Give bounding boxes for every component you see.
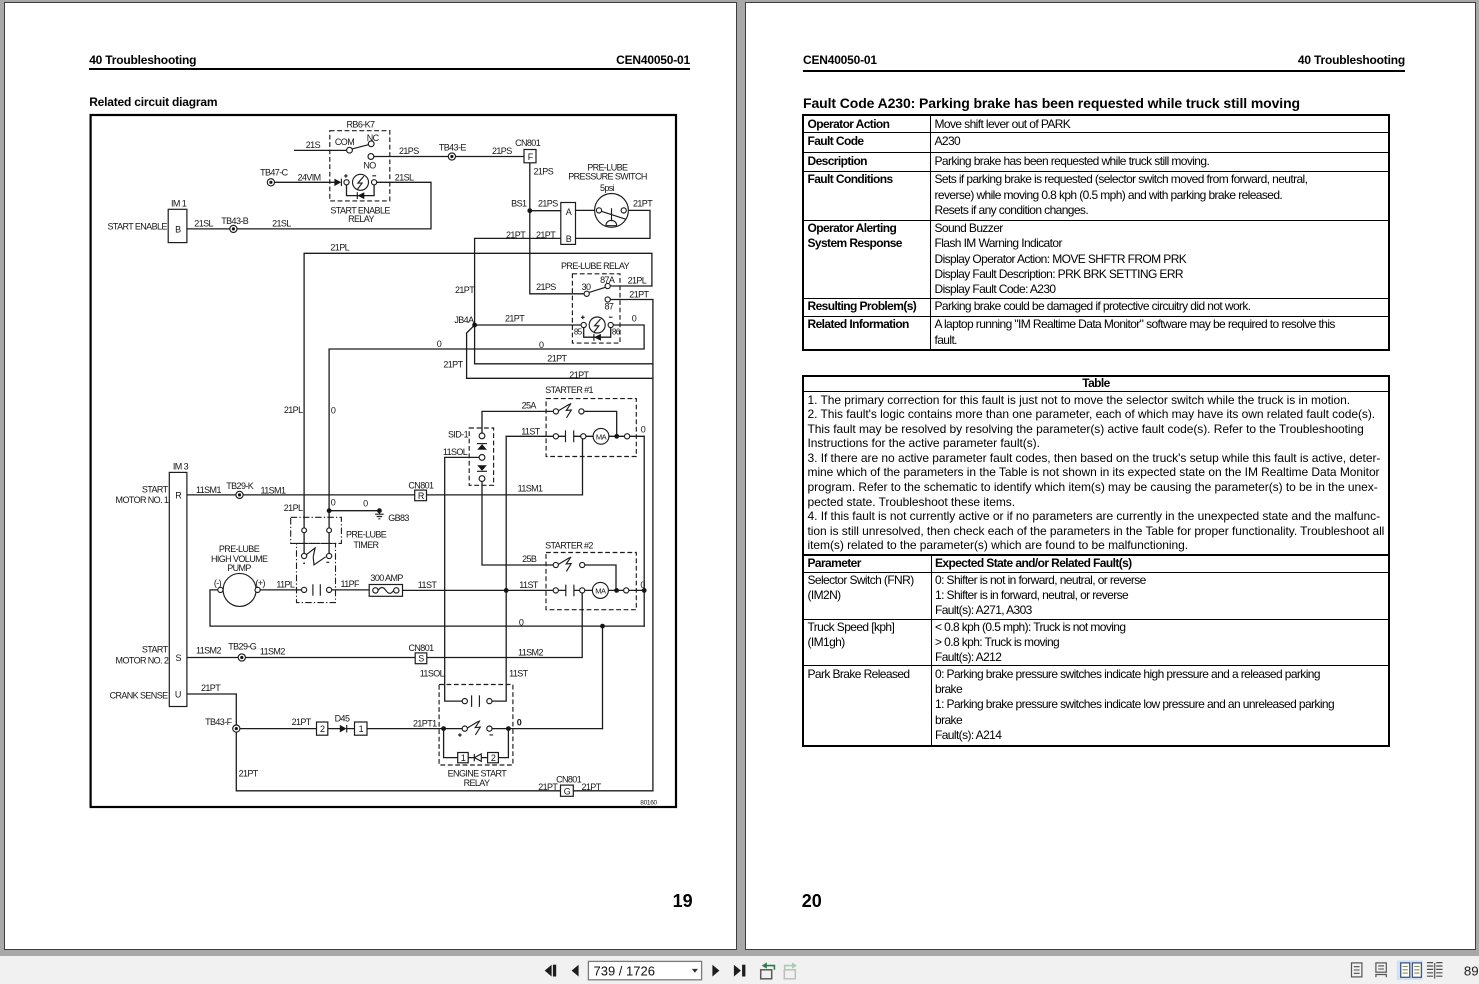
svg-text:21PT: 21PT <box>201 683 221 693</box>
wire 21PT from B to JB4A vertical <box>475 238 561 363</box>
svg-text:BS1: BS1 <box>511 199 527 209</box>
svg-text:21PS: 21PS <box>538 199 558 209</box>
connector A-B box <box>561 203 576 245</box>
wire 11ST fuse to starter 2 <box>403 589 554 591</box>
node 21PT1 junction dot <box>441 726 446 731</box>
svg-text:21PT: 21PT <box>239 769 259 779</box>
svg-text:21PT: 21PT <box>292 717 312 727</box>
wire 11SM2 IM3-S to CN801-S <box>187 657 415 659</box>
svg-text:NC: NC <box>367 133 380 143</box>
svg-text:739 / 1726: 739 / 1726 <box>594 963 655 978</box>
svg-text:21PL: 21PL <box>330 242 349 252</box>
wire 21S <box>295 149 347 151</box>
timer output contact <box>302 584 332 596</box>
svg-text:0: 0 <box>632 313 637 323</box>
svg-text:21PT: 21PT <box>506 230 526 240</box>
coil pre-lube relay <box>581 316 613 334</box>
relay blade COM-NC <box>352 145 368 149</box>
svg-text:STARTER #1: STARTER #1 <box>545 385 593 395</box>
svg-text:21PT1: 21PT1 <box>413 718 437 728</box>
svg-text:89: 89 <box>1464 963 1479 978</box>
svg-text:21PS: 21PS <box>492 146 512 156</box>
wire 11PF timer to fuse <box>332 589 370 591</box>
fuse 300 AMP <box>369 585 402 597</box>
wire engine start relay flyback loop <box>444 729 509 758</box>
svg-text:TB43-B: TB43-B <box>221 216 249 226</box>
diagram border frame <box>91 115 676 807</box>
wire 0 pump rail <box>210 590 644 626</box>
wire 25A SID-1 to starter 1 <box>482 411 553 433</box>
svg-text:0: 0 <box>331 498 336 508</box>
terminal box 2 <box>317 722 328 735</box>
svg-text:CN801: CN801 <box>408 480 434 490</box>
terminal timer left <box>302 528 307 533</box>
relay engine start dashed box <box>439 685 513 766</box>
toolbar first-page button <box>545 965 557 977</box>
svg-text:0: 0 <box>539 340 544 350</box>
motor MA starter 2 <box>592 582 608 598</box>
svg-text:11ST: 11ST <box>509 668 529 678</box>
svg-text:B: B <box>566 234 572 244</box>
svg-text:21PT: 21PT <box>582 782 602 792</box>
svg-text:21PT: 21PT <box>569 370 589 380</box>
svg-text:21S: 21S <box>306 140 321 150</box>
svg-text:11PF: 11PF <box>341 579 361 589</box>
svg-text:11ST: 11ST <box>519 580 539 590</box>
wire 21PL top rail <box>304 253 652 528</box>
svg-text:0: 0 <box>640 580 645 590</box>
connector TB29-G <box>238 654 245 661</box>
svg-text:11ST: 11ST <box>521 426 541 436</box>
coil engine start relay <box>458 720 493 736</box>
wire 21PT TB43-F to engine start relay <box>240 728 462 730</box>
svg-text:11SM2: 11SM2 <box>196 645 221 655</box>
toolbar next-view button disabled <box>784 962 797 978</box>
svg-text:TIMER: TIMER <box>353 540 379 550</box>
wire 11ST vertical <box>492 436 506 701</box>
svg-text:0: 0 <box>363 499 368 509</box>
module IM 1 box <box>168 209 187 242</box>
node JB4A junction dot <box>472 323 477 328</box>
svg-text:(-): (-) <box>214 578 222 588</box>
svg-text:START: START <box>142 484 169 494</box>
terminal starter 1 output <box>625 434 630 439</box>
starter 2 solenoid contact <box>553 585 585 597</box>
connector CN801-G box <box>561 785 574 796</box>
svg-text:0: 0 <box>519 618 524 628</box>
wire 21PT IM3-U drop <box>187 694 236 725</box>
svg-text:11SOL: 11SOL <box>443 447 468 457</box>
wire 11PL pump to timer <box>260 589 302 591</box>
toolbar continuous-view button <box>1376 963 1386 977</box>
svg-text:START: START <box>142 645 169 655</box>
timer upper box <box>291 517 342 543</box>
svg-text:START ENABLE: START ENABLE <box>107 221 167 231</box>
svg-text:21PS: 21PS <box>534 166 554 176</box>
svg-text:PRESSURE SWITCH: PRESSURE SWITCH <box>568 172 647 182</box>
svg-text:CN801: CN801 <box>556 775 582 785</box>
svg-text:D45: D45 <box>335 713 350 723</box>
wire 11SM1 IM3-R to CN801-R <box>187 494 415 496</box>
terminal box 1 <box>355 722 368 735</box>
svg-text:21PL: 21PL <box>284 405 303 415</box>
connector TB47-C <box>267 179 274 186</box>
wire starter 1 internal segments <box>558 435 644 437</box>
svg-text:21PT: 21PT <box>629 289 649 299</box>
wire 21PT horizontal to right rail <box>475 363 653 365</box>
svg-text:21PT: 21PT <box>547 354 567 364</box>
wire 11ST starter 1 row <box>506 435 553 437</box>
node starter 2 rail junction dot <box>642 588 647 593</box>
svg-text:0: 0 <box>641 424 646 434</box>
flyback diode pre-lube relay <box>594 334 601 341</box>
wire 25B SID-1 to starter 2 <box>482 482 553 566</box>
svg-text:5psi: 5psi <box>600 183 615 193</box>
svg-text:MA: MA <box>595 586 606 595</box>
svg-text:87: 87 <box>604 302 613 312</box>
svg-text:CN801: CN801 <box>408 643 434 653</box>
svg-text:86: 86 <box>612 327 621 336</box>
wire 21PS BS1 to connector A <box>530 210 561 212</box>
wire 21PS vertical F to contact 30 <box>530 163 584 294</box>
engine start relay contact <box>462 695 492 707</box>
svg-text:TB29-K: TB29-K <box>226 481 254 491</box>
terminal SID-1 bottom <box>479 476 485 482</box>
svg-text:24VIM: 24VIM <box>298 173 321 183</box>
svg-text:21PL: 21PL <box>628 276 647 286</box>
relay blade 30-87A <box>589 287 605 292</box>
toolbar previous-page button <box>572 965 579 977</box>
motor pre-lube pump <box>218 573 260 606</box>
node 11ST junction dot <box>504 588 509 593</box>
connector CN801-R box <box>415 490 427 501</box>
node engine start relay output dot <box>506 726 511 731</box>
starter 1 dashed box <box>546 399 636 457</box>
svg-text:21PT: 21PT <box>455 285 475 295</box>
relay pre-lube dashed box <box>572 274 620 343</box>
starter 2 dashed box <box>546 553 636 610</box>
node 0 wire junction dot <box>600 624 605 629</box>
svg-text:21SL: 21SL <box>395 173 414 183</box>
svg-text:TB43-F: TB43-F <box>205 717 233 727</box>
connector TB43-B <box>230 225 237 232</box>
connector TB29-K <box>236 491 243 498</box>
wire 0 engine start relay output <box>492 728 603 730</box>
wire pressure switch A-B loop segment <box>576 209 597 211</box>
toolbar two-page-continuous button <box>1427 963 1443 979</box>
ground GB83 <box>327 508 384 518</box>
timer lower box <box>297 543 336 602</box>
svg-text:21PT: 21PT <box>443 359 463 369</box>
svg-text:1: 1 <box>461 753 466 763</box>
svg-text:1: 1 <box>359 724 364 734</box>
diode start enable <box>334 179 341 187</box>
wire 21PT 87 stub <box>610 299 653 301</box>
svg-text:11SM2: 11SM2 <box>260 646 285 656</box>
timer relay contact <box>302 548 332 565</box>
svg-text:11SM2: 11SM2 <box>518 647 543 657</box>
module IM 3 box <box>169 472 187 706</box>
starter 2 contact <box>553 557 585 572</box>
svg-text:21PS: 21PS <box>536 282 556 292</box>
svg-text:S: S <box>418 654 424 664</box>
svg-text:30: 30 <box>582 282 591 292</box>
wire 11SOL SID-1 to engine start relay <box>445 457 480 701</box>
pressure switch BS1 <box>595 194 629 228</box>
svg-text:85: 85 <box>574 327 583 336</box>
wire timer terminal drops <box>304 533 329 554</box>
svg-text:RELAY: RELAY <box>348 214 374 224</box>
motor MA starter 1 <box>593 428 609 444</box>
terminal timer right <box>327 528 332 533</box>
terminal box 1 flyback <box>458 753 469 763</box>
svg-text:11SOL: 11SOL <box>420 668 445 678</box>
svg-text:STARTER #2: STARTER #2 <box>545 541 593 551</box>
wire 0 branch to engine start relay <box>602 626 604 729</box>
svg-text:JB4A: JB4A <box>454 315 474 325</box>
wire starter 2 internal segments <box>558 589 644 591</box>
relay RB6-K7 dashed box <box>330 131 390 201</box>
starter 1 solenoid contact <box>553 430 586 442</box>
flyback diode engine start relay <box>474 754 481 762</box>
wire starter 2 contact to motor junction <box>585 565 616 590</box>
svg-text:0: 0 <box>437 339 442 349</box>
toolbar last-page button <box>734 965 745 977</box>
terminal box 2 flyback <box>488 753 499 763</box>
svg-text:TB47-C: TB47-C <box>260 167 289 177</box>
diode block SID-1 dashed box <box>469 428 493 485</box>
svg-text:21PT: 21PT <box>633 199 653 209</box>
right page <box>745 2 1476 950</box>
terminal SID-1 middle <box>479 455 485 461</box>
svg-text:B: B <box>175 225 181 235</box>
toolbar page number combo box <box>588 961 701 979</box>
svg-text:21PT: 21PT <box>505 313 525 323</box>
svg-text:IM 1: IM 1 <box>171 198 187 208</box>
wire 0 branch to GB83 ground <box>329 510 379 512</box>
node BS1 junction dot <box>527 208 532 213</box>
svg-text:11PL: 11PL <box>276 579 295 589</box>
svg-text:2: 2 <box>320 724 325 734</box>
connector CN801-F box <box>524 150 536 163</box>
left page <box>4 2 737 950</box>
svg-text:87A: 87A <box>600 275 615 285</box>
svg-text:21PT: 21PT <box>536 230 556 240</box>
svg-text:G: G <box>564 786 571 796</box>
contact 87 <box>605 297 610 302</box>
connector TB43-F <box>233 725 240 732</box>
svg-text:TB43-E: TB43-E <box>439 143 467 153</box>
diode SID-1 lower <box>477 465 487 471</box>
coil K1 start enable relay <box>344 174 377 190</box>
svg-text:25A: 25A <box>522 400 537 410</box>
wire starter 1 contact to motor junction <box>584 411 617 436</box>
toolbar two-page-view button active <box>1397 960 1423 980</box>
svg-text:21PS: 21PS <box>399 146 419 156</box>
svg-text:11SM1: 11SM1 <box>518 483 543 493</box>
svg-text:MA: MA <box>596 432 607 441</box>
svg-text:21SL: 21SL <box>272 218 291 228</box>
node starter 1 output dot <box>614 434 619 439</box>
svg-text:PRE-LUBE: PRE-LUBE <box>346 530 387 540</box>
wire prelube coil flyback loop <box>584 328 611 338</box>
svg-text:RB6-K7: RB6-K7 <box>347 119 376 129</box>
wire 21PL 87A stub <box>610 285 652 287</box>
svg-text:PRE-LUBE: PRE-LUBE <box>219 544 260 554</box>
node starter 2 output dot <box>614 588 619 593</box>
svg-text:0: 0 <box>517 718 522 728</box>
wire 24VIM TB47-C to diode <box>275 181 335 183</box>
svg-text:NO: NO <box>363 161 376 171</box>
svg-text:COM: COM <box>335 137 354 147</box>
svg-text:2: 2 <box>491 753 496 763</box>
flyback diode start enable <box>357 192 364 199</box>
svg-text:0: 0 <box>331 406 336 416</box>
svg-text:(+): (+) <box>255 578 265 588</box>
wire 21SL coil to start enable B <box>187 182 431 229</box>
toolbar single-page-view button <box>1352 963 1362 977</box>
svg-text:MOTOR NO. 2: MOTOR NO. 2 <box>116 655 169 665</box>
svg-text:PUMP: PUMP <box>227 563 251 573</box>
svg-text:IM 3: IM 3 <box>173 461 189 471</box>
svg-text:21SL: 21SL <box>194 218 213 228</box>
svg-text:300 AMP: 300 AMP <box>370 573 403 583</box>
svg-text:21PL: 21PL <box>284 503 303 513</box>
svg-text:GB83: GB83 <box>388 513 409 523</box>
diode SID-1 upper <box>477 444 487 450</box>
connector TB43-E <box>448 153 455 160</box>
wire 21PT JB4A diagonal branch <box>467 325 653 378</box>
wire 21PS from NO to CN801-F <box>374 156 524 158</box>
wire 21PT TB43-F down to bottom rail <box>236 732 653 791</box>
wire start enable coil flyback loop <box>347 185 375 196</box>
terminal SID-1 top <box>479 433 485 439</box>
connector CN801-S box <box>415 653 427 664</box>
svg-text:RELAY: RELAY <box>464 778 490 788</box>
svg-text:11SM1: 11SM1 <box>261 486 286 496</box>
contact 87A <box>605 283 610 288</box>
contact NC <box>368 141 374 147</box>
svg-text:11SM1: 11SM1 <box>196 485 221 495</box>
contact COM <box>347 147 353 153</box>
wire 0 rail starters <box>643 436 645 626</box>
svg-text:CN801: CN801 <box>515 138 541 148</box>
wire 21PT pressure switch loop to B <box>576 210 651 238</box>
svg-text:TB29-G: TB29-G <box>228 641 257 651</box>
svg-text:A: A <box>566 207 572 217</box>
svg-text:11ST: 11ST <box>418 580 438 590</box>
wire 11SM2 CN801-S to starter 2 <box>427 593 582 658</box>
starter 1 contact <box>553 403 584 418</box>
diode D45 <box>340 725 347 733</box>
toolbar previous-view button <box>761 962 775 978</box>
toolbar <box>0 956 1479 984</box>
contact NO <box>368 154 374 160</box>
svg-text:U: U <box>175 690 181 700</box>
svg-text:80160: 80160 <box>640 800 657 807</box>
contact 30 <box>584 291 589 296</box>
svg-text:S: S <box>175 653 181 663</box>
wire 21PT JB4A to relay coil <box>475 324 582 326</box>
svg-text:PRE-LUBE RELAY: PRE-LUBE RELAY <box>561 261 630 271</box>
svg-text:MOTOR NO. 1: MOTOR NO. 1 <box>116 495 169 505</box>
terminal starter 2 output <box>624 588 629 593</box>
wire 21PT right rail <box>652 300 654 791</box>
svg-text:25B: 25B <box>522 554 537 564</box>
toolbar next-page button <box>712 965 719 977</box>
wire 11SM1 CN801-R to starter 1 <box>427 439 583 495</box>
svg-text:SID-1: SID-1 <box>448 430 469 440</box>
wire 0 prelube coil to GB83 rail <box>329 325 644 528</box>
svg-text:CRANK SENSE: CRANK SENSE <box>110 691 169 701</box>
